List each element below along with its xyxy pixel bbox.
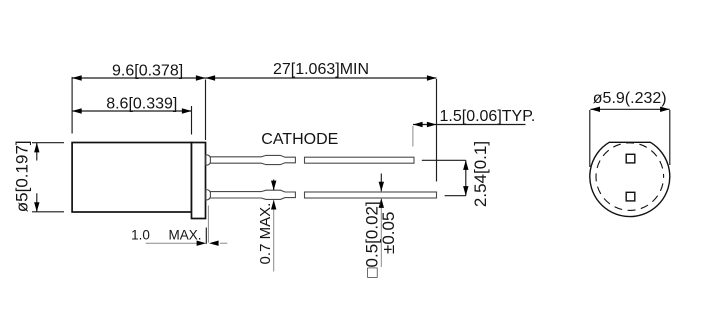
- phi5.9 right extension line: [669, 110, 671, 165]
- 8.6 right extension line: [191, 106, 193, 135]
- svg-text:9.6[0.378]: 9.6[0.378]: [112, 63, 183, 80]
- bottom lead (straight + crimp + tip): [210, 190, 295, 199]
- dimension square 0.5 lower segment: [380, 198, 382, 267]
- 1.0 MAX leader line: [146, 242, 200, 244]
- bottom lead dome (lead root): [206, 190, 211, 201]
- svg-text:CATHODE: CATHODE: [261, 131, 338, 148]
- svg-text:MAX.: MAX.: [168, 227, 201, 242]
- phi5 bottom extension line: [32, 211, 64, 213]
- svg-text:2.54[0.1]: 2.54[0.1]: [471, 141, 490, 207]
- 1.0 MAX gray extension: [207, 206, 209, 243]
- 9.6 right extension line: [205, 80, 207, 141]
- top lead continuation after break: [305, 157, 415, 163]
- dimension 0.7 MAX lower segment: [273, 200, 275, 272]
- top lead (straight + crimp + tip): [210, 155, 295, 164]
- top lead dome (lead root): [206, 155, 211, 166]
- top view inner dashed circle (body): [596, 143, 664, 211]
- dimension 2.54 connectors: [422, 159, 466, 161]
- dimension 0.7 MAX upper segment: [273, 180, 275, 191]
- top view upper lead square: [626, 154, 635, 163]
- dimension square 0.5 upper segment: [380, 174, 382, 192]
- dimension 27 MIN line: [206, 77, 437, 79]
- svg-text:ø5.9(.232): ø5.9(.232): [593, 90, 667, 107]
- LED body (epoxy package, side view): [72, 143, 191, 213]
- LED flange (side view): [192, 143, 206, 219]
- dimension phi5.9 line: [590, 108, 669, 110]
- svg-text:0.7 MAX.: 0.7 MAX.: [257, 203, 274, 265]
- 1.0 MAX right arrow + tail: [209, 241, 219, 246]
- top view lower lead square: [626, 192, 635, 201]
- svg-text:ø5[0.197]: ø5[0.197]: [13, 140, 32, 212]
- phi5.9 left extension line: [589, 110, 591, 167]
- 27 MIN right extension line: [436, 79, 438, 182]
- svg-text:8.6[0.339]: 8.6[0.339]: [106, 96, 177, 113]
- top view outer circle with flat (flange): [590, 142, 670, 216]
- phi5 arrows: [34, 143, 39, 153]
- svg-text:27[1.063]MIN: 27[1.063]MIN: [273, 61, 369, 78]
- dimension 1.5 TYP line: [413, 124, 526, 126]
- dimension phi5 vertical line: [36, 143, 38, 161]
- dimension 8.6 line: [72, 110, 191, 112]
- dimension 9.6 line: [72, 77, 205, 79]
- svg-text:1.0: 1.0: [131, 227, 150, 242]
- 1.5 left extension line: [412, 126, 414, 147]
- 1.0 MAX short black extension: [205, 228, 207, 244]
- left extension line for 9.6/8.6: [71, 77, 73, 134]
- svg-text:±0.05: ±0.05: [379, 212, 398, 254]
- dimension 2.54 vertical line: [465, 160, 467, 195]
- svg-text:1.5[0.06]TYP.: 1.5[0.06]TYP.: [440, 108, 536, 125]
- phi5 top extension line: [32, 142, 64, 144]
- bottom lead continuation after break: [305, 192, 437, 198]
